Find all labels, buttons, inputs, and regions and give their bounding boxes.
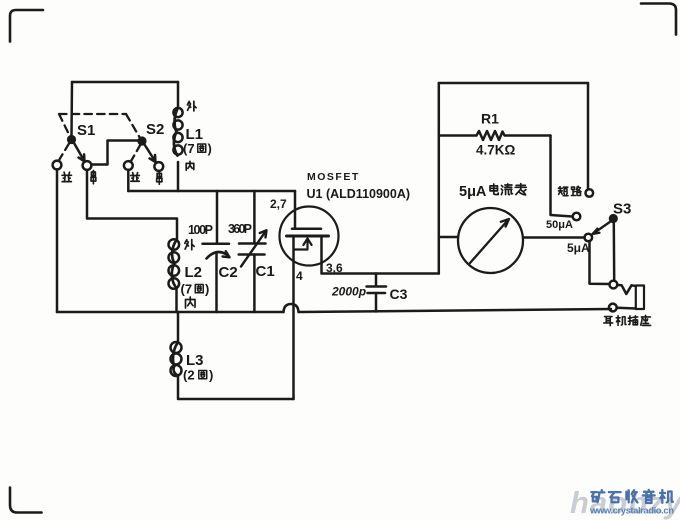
label S2 parallel xyxy=(131,173,140,182)
wire L2 bottom lead xyxy=(175,288,178,312)
svg-text:MOSFET: MOSFET xyxy=(307,171,360,183)
wire L3 bottom loop to MOSFET source xyxy=(178,375,294,399)
capacitor C2 bottom lead xyxy=(215,254,218,313)
svg-text:(7: (7 xyxy=(183,141,195,156)
capacitor C1 bottom lead xyxy=(253,255,256,313)
meter M1 circle xyxy=(458,208,523,273)
svg-text:2,7: 2,7 xyxy=(270,197,287,211)
svg-text:): ) xyxy=(205,282,209,297)
svg-text:5μA: 5μA xyxy=(567,241,590,255)
capacitor C2 curved plate with arrow xyxy=(207,252,227,258)
svg-text:): ) xyxy=(208,141,212,156)
wire hop xyxy=(284,304,299,312)
inductor L2 xyxy=(169,239,180,250)
svg-text:L2: L2 xyxy=(185,264,203,281)
capacitor C3 bottom lead xyxy=(375,293,378,312)
wire 5uA contact down to jack tip xyxy=(590,242,610,285)
wire bottom rail with hop over MOSFET source lead xyxy=(57,309,611,312)
frame corner top-left xyxy=(10,10,43,42)
resistor R1 xyxy=(439,131,551,140)
wire short-contact drop xyxy=(587,83,590,189)
wire top (S1 pole to L1 top) xyxy=(72,81,178,84)
wire jack sleeve to body xyxy=(617,307,636,310)
wire meter right lead to 5uA contact xyxy=(523,236,585,239)
svg-text:(2: (2 xyxy=(183,368,195,383)
switch S2 arm arrow xyxy=(145,145,156,163)
frame corner bottom-left xyxy=(10,488,42,513)
svg-text:U1 (ALD110900A): U1 (ALD110900A) xyxy=(307,187,411,201)
capacitor C3 plates xyxy=(367,287,387,294)
wire S3 pole down to jack tip xyxy=(613,223,616,280)
jack spring contact V xyxy=(618,285,637,294)
switch S1 pole dot xyxy=(67,135,76,144)
label L2 inner xyxy=(186,297,196,308)
contact S2 series xyxy=(154,162,163,171)
wire L1 top lead xyxy=(177,82,180,107)
contact 5uA xyxy=(585,234,593,242)
meter needle arrow xyxy=(470,219,509,263)
capacitor C2 top lead xyxy=(216,191,219,244)
capacitor C2 top plate xyxy=(203,243,230,246)
switch S2 pole dot xyxy=(137,136,146,145)
svg-text:S1: S1 xyxy=(77,122,95,139)
wire S2 parallel contact down to tank node xyxy=(127,170,130,191)
switch S3 pole dot xyxy=(609,214,618,223)
inductor L1 xyxy=(173,108,182,117)
svg-text:4: 4 xyxy=(296,269,303,283)
label S1 series xyxy=(91,170,96,183)
svg-text:C2: C2 xyxy=(219,264,238,281)
contact S1 parallel xyxy=(53,161,62,170)
switch S3 arm arrow xyxy=(593,222,611,235)
svg-text:C3: C3 xyxy=(390,286,408,302)
wire meter left lead xyxy=(439,236,458,239)
wire meter loop top xyxy=(439,82,588,85)
wire S1 series contact to S2 pole (step) xyxy=(92,141,140,165)
MOSFET channel bar xyxy=(287,235,329,238)
watermark blue title xyxy=(591,490,673,503)
MOSFET drain lead pins 3,6 xyxy=(322,236,439,274)
svg-text:3,6: 3,6 xyxy=(326,261,343,275)
inductor L3 xyxy=(177,312,180,342)
label L2 outer xyxy=(185,239,194,249)
svg-text:): ) xyxy=(209,368,213,383)
svg-text:(7: (7 xyxy=(181,282,193,297)
MOSFET gate bar xyxy=(292,228,321,231)
wire S1 parallel contact down to bottom rail xyxy=(56,170,59,313)
wire S1 series contact down to L2 top xyxy=(87,170,177,239)
svg-text:S3: S3 xyxy=(613,201,631,218)
label S1 parallel xyxy=(62,172,71,181)
wire gate lead from tank node xyxy=(294,191,297,229)
jack body rectangle xyxy=(636,286,644,310)
svg-text:50μA: 50μA xyxy=(546,219,573,231)
svg-text:S2: S2 xyxy=(146,121,164,138)
label L1 inner xyxy=(186,161,194,170)
contact S2 parallel xyxy=(124,161,133,170)
contact jack tip xyxy=(610,281,618,289)
capacitor C1 top lead xyxy=(253,191,256,243)
capacitor C1 plates xyxy=(239,244,266,255)
svg-text:C1: C1 xyxy=(256,263,275,280)
contact 50uA xyxy=(573,213,581,221)
svg-text:R1: R1 xyxy=(481,111,499,127)
MOSFET substrate arrow xyxy=(294,239,312,250)
wire tank node rail xyxy=(128,190,295,193)
contact jack sleeve xyxy=(609,304,617,312)
svg-text:360P: 360P xyxy=(228,222,252,236)
wire S1 pole lead xyxy=(70,82,73,136)
label short-circuit xyxy=(558,187,568,196)
capacitor C3 top lead xyxy=(375,274,378,287)
wire R1 to 50uA contact xyxy=(551,136,573,217)
svg-text:100P: 100P xyxy=(188,223,213,237)
switch S1 arm arrow xyxy=(74,143,85,162)
contact S1 series xyxy=(83,161,92,170)
svg-text:L3: L3 xyxy=(186,352,204,369)
MOSFET U1 body circle xyxy=(280,207,339,266)
label L1 outer xyxy=(187,101,196,111)
variable arrow C1 xyxy=(241,230,267,266)
contact short-circuit xyxy=(586,189,594,197)
switch linkage dashed S1-S2 xyxy=(59,114,141,162)
svg-text:4.7KΩ: 4.7KΩ xyxy=(476,143,516,158)
svg-text:www.crystalradio.cn: www.crystalradio.cn xyxy=(589,506,674,517)
svg-text:5μA: 5μA xyxy=(459,184,487,200)
MOSFET source lead pin 4 xyxy=(292,236,295,399)
label headphone jack xyxy=(604,317,613,326)
label S2 series xyxy=(157,172,162,184)
wire L1 bottom lead xyxy=(177,162,180,191)
frame corner top-right xyxy=(641,4,676,35)
wire meter loop left vertical xyxy=(438,83,441,274)
svg-text:2000p: 2000p xyxy=(331,285,366,299)
